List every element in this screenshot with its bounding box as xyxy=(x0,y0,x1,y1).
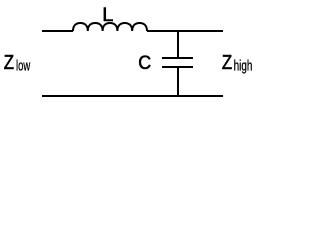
node Z_low label xyxy=(4,52,31,75)
inductor L xyxy=(73,23,147,31)
svg-text:L: L xyxy=(102,4,113,26)
label C xyxy=(138,52,151,74)
svg-text:C: C xyxy=(138,52,151,74)
capacitor C xyxy=(162,58,193,67)
svg-text:Z: Z xyxy=(222,52,232,74)
wire vertical lower from capacitor xyxy=(177,67,179,97)
wire top right segment xyxy=(147,30,223,32)
svg-text:high: high xyxy=(234,59,253,75)
label L xyxy=(102,4,113,26)
svg-text:Z: Z xyxy=(4,52,14,74)
wire bottom xyxy=(42,95,223,97)
node Z_high label xyxy=(222,52,253,75)
svg-text:low: low xyxy=(16,59,31,75)
wire top with inductor humps xyxy=(42,30,73,32)
wire vertical upper to capacitor xyxy=(177,30,179,58)
